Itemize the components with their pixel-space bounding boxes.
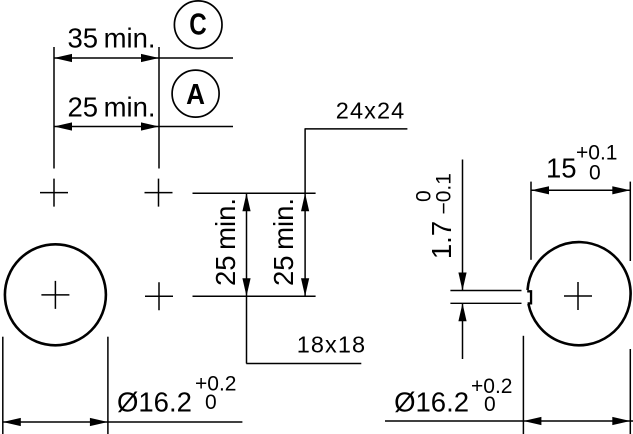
svg-text:25 min.: 25 min. bbox=[210, 198, 241, 286]
svg-text:C: C bbox=[189, 7, 206, 42]
svg-text:0: 0 bbox=[205, 391, 217, 414]
svg-text:35 min.: 35 min. bbox=[68, 22, 156, 53]
svg-text:24x24: 24x24 bbox=[336, 97, 406, 123]
svg-text:25 min.: 25 min. bbox=[268, 198, 299, 286]
svg-text:0: 0 bbox=[589, 162, 601, 185]
svg-text:Ø16.2: Ø16.2 bbox=[117, 387, 192, 418]
svg-text:Ø16.2: Ø16.2 bbox=[394, 387, 469, 418]
svg-text:A: A bbox=[186, 78, 205, 111]
svg-text:18x18: 18x18 bbox=[297, 332, 367, 358]
svg-text:25 min.: 25 min. bbox=[68, 91, 156, 122]
svg-text:15: 15 bbox=[546, 153, 577, 184]
svg-text:1.7: 1.7 bbox=[426, 221, 457, 259]
svg-text:0: 0 bbox=[484, 393, 496, 416]
svg-text:−0.1: −0.1 bbox=[433, 173, 456, 214]
